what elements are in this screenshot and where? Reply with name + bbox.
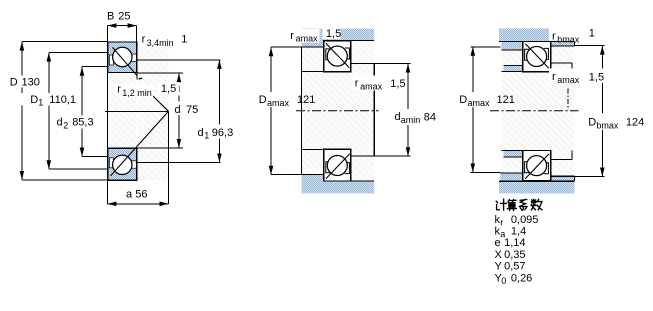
svg-text:121: 121 <box>497 94 515 106</box>
svg-text:d: d <box>57 117 63 129</box>
svg-text:85,3: 85,3 <box>72 117 93 129</box>
svg-text:56: 56 <box>135 189 147 201</box>
svg-text:a: a <box>126 189 133 201</box>
svg-text:D: D <box>588 117 596 129</box>
svg-text:amax: amax <box>468 98 491 108</box>
svg-text:D: D <box>459 94 467 106</box>
svg-text:r: r <box>290 30 294 42</box>
svg-text:r: r <box>355 78 359 90</box>
svg-text:amax: amax <box>296 34 319 44</box>
svg-text:amax: amax <box>557 75 580 85</box>
svg-text:1,5: 1,5 <box>326 28 341 40</box>
svg-text:0,095: 0,095 <box>511 214 539 226</box>
svg-text:d: d <box>198 127 204 139</box>
svg-text:d: d <box>175 104 181 116</box>
svg-text:96,3: 96,3 <box>212 127 233 139</box>
svg-text:75: 75 <box>186 104 198 116</box>
svg-text:amin: amin <box>401 115 421 125</box>
svg-text:1,4: 1,4 <box>511 226 526 238</box>
svg-text:121: 121 <box>297 94 315 106</box>
svg-text:110,1: 110,1 <box>49 94 76 106</box>
svg-text:3,4min: 3,4min <box>147 38 174 48</box>
svg-text:1: 1 <box>38 98 43 108</box>
svg-text:r: r <box>142 34 146 46</box>
svg-text:bmax: bmax <box>557 34 580 44</box>
svg-text:amax: amax <box>267 98 290 108</box>
svg-text:r: r <box>552 31 556 43</box>
svg-text:r: r <box>552 71 556 83</box>
svg-text:r: r <box>117 84 121 96</box>
svg-text:1,2 min: 1,2 min <box>122 88 152 98</box>
svg-text:0,57: 0,57 <box>504 261 525 273</box>
svg-text:25: 25 <box>118 11 130 23</box>
svg-text:B: B <box>107 11 114 23</box>
svg-text:1,5: 1,5 <box>589 72 604 84</box>
svg-text:0,26: 0,26 <box>511 272 532 284</box>
svg-text:130: 130 <box>22 76 40 88</box>
svg-text:1: 1 <box>204 131 209 141</box>
svg-text:1,14: 1,14 <box>504 237 525 249</box>
svg-text:r: r <box>500 217 503 227</box>
svg-text:e: e <box>495 237 501 249</box>
svg-text:D: D <box>30 94 38 106</box>
svg-text:D: D <box>259 94 267 106</box>
svg-text:D: D <box>10 76 18 88</box>
svg-text:amax: amax <box>360 81 383 91</box>
svg-text:124: 124 <box>626 117 644 129</box>
svg-text:Y: Y <box>495 261 503 273</box>
svg-text:2: 2 <box>63 120 68 130</box>
svg-text:0: 0 <box>501 276 506 286</box>
svg-text:84: 84 <box>424 112 436 124</box>
svg-text:0,35: 0,35 <box>504 249 525 261</box>
svg-text:1: 1 <box>589 28 595 40</box>
svg-text:bmax: bmax <box>596 120 619 130</box>
svg-text:1,5: 1,5 <box>161 83 176 95</box>
svg-text:d: d <box>395 111 401 123</box>
svg-text:1: 1 <box>181 34 187 46</box>
svg-text:X: X <box>495 249 503 261</box>
svg-text:1,5: 1,5 <box>390 78 405 90</box>
